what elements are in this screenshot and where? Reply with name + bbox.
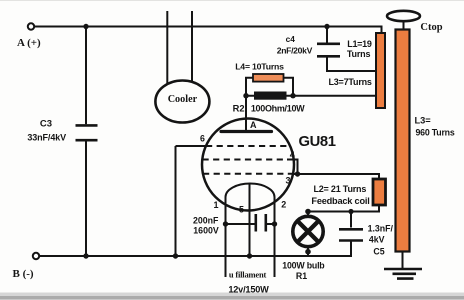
- junction dot pins 3-4: [295, 171, 300, 176]
- capacitor c4: [317, 44, 340, 57]
- wire L2 bottom to lamp: [308, 205, 379, 212]
- wire lamp bottom lead: [307, 247, 309, 258]
- svg-text:c4: c4: [286, 34, 296, 44]
- lamp X right diagonal: [298, 222, 318, 242]
- svg-text:4: 4: [290, 150, 295, 160]
- svg-text:B (-): B (-): [13, 268, 34, 280]
- svg-text:L3=7Turns: L3=7Turns: [328, 77, 371, 87]
- svg-text:A (+): A (+): [17, 37, 41, 49]
- junction dot lamp bottom: [305, 249, 311, 255]
- photo edge bottom strip: [0, 293, 464, 300]
- wire c4 bottom lead to secondary tap: [327, 58, 377, 72]
- svg-text:12v/150W: 12v/150W: [228, 284, 269, 294]
- junction dot C5 top: [348, 209, 353, 214]
- ground: [384, 269, 422, 279]
- svg-text:2: 2: [281, 199, 286, 209]
- svg-text:5: 5: [239, 204, 244, 214]
- wire C5 bottom lead: [350, 242, 352, 258]
- wire anode lead: [245, 96, 247, 131]
- svg-text:960 Turns: 960 Turns: [415, 128, 454, 138]
- wire pin 4 lead: [287, 160, 298, 175]
- junction dot bus/grid vertical: [173, 253, 178, 258]
- svg-text:Ctop: Ctop: [420, 22, 442, 33]
- svg-text:R2: R2: [233, 104, 245, 114]
- wire L4 right lead: [284, 78, 294, 96]
- grid row g2 (dashed): [203, 159, 294, 161]
- svg-text:GU81: GU81: [298, 134, 335, 150]
- junction dot A+/C3: [83, 24, 88, 29]
- wire pin 5 cathode lead: [249, 184, 251, 256]
- resistor R2: [254, 92, 287, 100]
- wire grid-1 to cathode vertical: [175, 146, 177, 256]
- svg-text:2nF/20kV: 2nF/20kV: [277, 45, 313, 55]
- junction dot lamp top: [305, 209, 311, 215]
- svg-text:L3=: L3=: [414, 115, 431, 125]
- wire secondary bottom to ground: [402, 252, 404, 269]
- filament dome: [226, 184, 275, 198]
- grid row g3 (dashed): [203, 173, 293, 175]
- lamp R1 bulb: [293, 216, 323, 246]
- fan cooler: [155, 81, 209, 123]
- svg-text:200nF: 200nF: [193, 216, 219, 226]
- svg-text:C3: C3: [40, 119, 52, 130]
- secondary coil L3: [396, 30, 410, 252]
- wire C5 top lead: [350, 212, 352, 228]
- svg-text:4kV: 4kV: [369, 235, 385, 245]
- svg-text:L1=19: L1=19: [347, 39, 372, 49]
- junction dot bus/C3: [83, 253, 88, 258]
- junction dot L4/R2 right: [290, 93, 295, 98]
- svg-text:C5: C5: [373, 247, 384, 257]
- svg-text:Cooler: Cooler: [168, 94, 198, 105]
- wire pin 3 lead: [292, 173, 298, 175]
- capacitor C5: [339, 229, 363, 240]
- lamp X left diagonal: [298, 222, 318, 242]
- toroid Ctop stem: [403, 21, 405, 30]
- wire cooler lead right: [191, 11, 193, 82]
- junction dot grid cap pin1: [223, 221, 228, 226]
- wire pin 2 lead: [274, 197, 276, 277]
- wire cooler lead left: [166, 11, 168, 84]
- svg-text:Turns: Turns: [347, 49, 371, 59]
- capacitor 200nF/1600V: [256, 214, 266, 232]
- primary coil L1: [376, 33, 385, 108]
- svg-text:6: 6: [200, 134, 205, 144]
- wire lamp top lead: [307, 212, 309, 218]
- wire C3 bottom lead: [85, 141, 87, 256]
- wire grid capacitor right: [267, 223, 275, 225]
- svg-text:33nF/4kV: 33nF/4kV: [27, 132, 66, 142]
- svg-text:1: 1: [213, 200, 218, 210]
- wire c4 top lead: [326, 28, 328, 43]
- tube GU81 envelope: [202, 119, 294, 211]
- wire A+ bus: [35, 27, 382, 34]
- svg-text:100Ohm/10W: 100Ohm/10W: [251, 103, 305, 113]
- wire L4 left lead: [246, 78, 253, 96]
- terminal B(-): [33, 253, 39, 259]
- wire C3 top lead: [85, 27, 87, 124]
- svg-text:A: A: [250, 120, 257, 130]
- svg-text:L2= 21 Turns: L2= 21 Turns: [313, 184, 366, 194]
- svg-text:1.3nF/: 1.3nF/: [368, 224, 394, 234]
- svg-text:1600V: 1600V: [193, 225, 219, 235]
- capacitor C3: [76, 125, 98, 140]
- junction dot bus/cathode: [247, 253, 252, 258]
- svg-text:100W bulb: 100W bulb: [282, 261, 325, 271]
- wire B- bottom bus: [40, 255, 352, 257]
- wire pin 1 lead: [225, 197, 227, 277]
- wire grid capacitor left: [226, 223, 255, 225]
- toroid Ctop: [387, 11, 420, 21]
- wire plate output to L2: [298, 174, 380, 180]
- svg-text:Feedback coil: Feedback coil: [311, 196, 369, 206]
- anode plate: [221, 130, 272, 133]
- svg-text:L4= 10Turns: L4= 10Turns: [235, 62, 284, 72]
- feedback coil L2: [373, 179, 386, 205]
- terminal A(+): [28, 23, 34, 29]
- wire anode to primary (through R2): [246, 95, 377, 97]
- photo edge top strip: [0, 0, 464, 1]
- grid row g1 (dashed): [206, 145, 290, 147]
- wire pin 6 lead: [176, 145, 210, 147]
- junction dot grid cap pin2: [272, 221, 277, 226]
- junction dot anode/L4/R2 left: [243, 93, 248, 98]
- svg-text:u fillament: u fillament: [229, 270, 267, 280]
- junction dot A+/c4: [324, 24, 329, 29]
- svg-text:R1: R1: [296, 271, 307, 281]
- inductor L4: [253, 74, 284, 82]
- svg-text:3: 3: [285, 175, 290, 185]
